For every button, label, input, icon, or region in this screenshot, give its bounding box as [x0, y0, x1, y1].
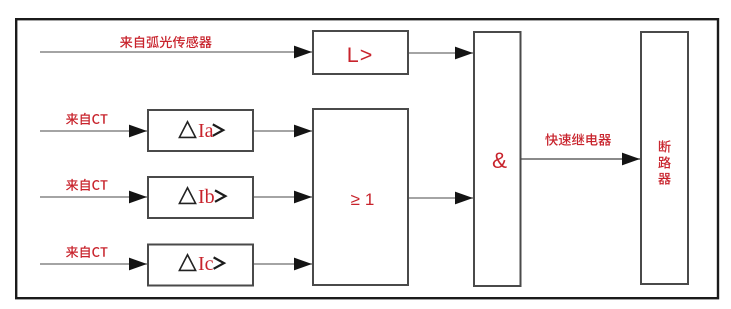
block: delta-Ia> overcurrent detector [148, 110, 253, 151]
label: 来自CT (from CT) phase a [66, 113, 108, 125]
greater-than symbol in block b [215, 190, 225, 201]
svg-text:Ic: Ic [198, 253, 214, 275]
arrowhead into circuit breaker [622, 153, 640, 166]
wire: arc-sensor input line [40, 51, 312, 53]
wire: detector a output to OR gate [254, 130, 312, 132]
block: delta-Ic> overcurrent detector [148, 245, 253, 286]
wire: OR gate output to AND gate [409, 197, 473, 199]
label: 来自CT (from CT) phase c [66, 246, 108, 258]
svg-text:Ia: Ia [198, 120, 214, 142]
arrowhead into OR gate input a [294, 125, 312, 138]
label: 来自CT (from CT) phase b [66, 179, 108, 191]
svg-text:Ib: Ib [198, 186, 215, 208]
arrowhead into delta-Ic block [129, 258, 147, 271]
block U3: AND gate (&) [474, 32, 521, 286]
block: delta-Ib> overcurrent detector [148, 177, 253, 218]
wire: CT input line phase a [40, 130, 147, 132]
wire: CT input line phase b [40, 196, 147, 198]
svg-text:L>: L> [347, 43, 374, 67]
arrowhead into AND gate (top input) [455, 47, 473, 60]
block U2: OR gate (>=1) [313, 109, 408, 285]
wire: L> output to AND gate [409, 52, 473, 54]
block U1: L> light level detector [313, 31, 408, 74]
wire: AND output to circuit breaker [521, 158, 640, 160]
greater-than symbol in block c [214, 257, 224, 268]
svg-text:&: & [492, 148, 507, 173]
wire: CT input line phase c [40, 263, 147, 265]
arrowhead into OR gate input b [294, 191, 312, 204]
wire: detector b output to OR gate [254, 196, 312, 198]
label: 来自弧光传感器 (from arc light sensor) [120, 36, 212, 48]
wire: detector c output to OR gate [254, 263, 312, 265]
arrowhead into delta-Ia block [129, 125, 147, 138]
block: 断路器 (circuit breaker) [641, 32, 688, 284]
label: 快速继电器 (fast relay) [545, 133, 611, 145]
arrowhead into AND gate (bottom input) [455, 192, 473, 205]
arrowhead into L> block [294, 46, 312, 59]
svg-text:≥1: ≥1 [351, 190, 380, 209]
greater-than symbol in block a [213, 124, 223, 135]
arrowhead into delta-Ib block [129, 191, 147, 204]
arrowhead into OR gate input c [294, 258, 312, 271]
